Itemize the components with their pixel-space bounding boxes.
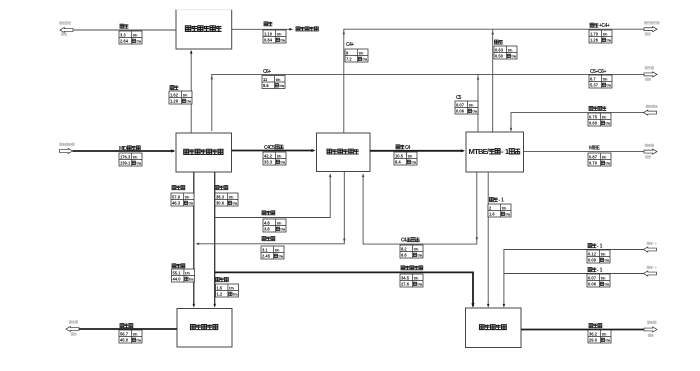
svg-text:t/h: t/h bbox=[414, 275, 419, 280]
stream table polymer grade ethylene bbox=[400, 274, 423, 287]
stream label hydrogen 氢气 bbox=[264, 22, 272, 26]
edge note butene1 note bbox=[647, 242, 657, 246]
arrow methanol feed in left bbox=[60, 148, 73, 153]
svg-text:t/h: t/h bbox=[601, 251, 606, 256]
svg-text:1.26: 1.26 bbox=[590, 37, 599, 42]
stream label C6+ stream bbox=[263, 69, 271, 75]
svg-text:t/h: t/h bbox=[469, 102, 474, 107]
svg-text:3.1: 3.1 bbox=[262, 247, 268, 252]
stream table PP product bbox=[119, 330, 142, 343]
svg-text:8.6: 8.6 bbox=[263, 83, 269, 88]
svg-text:t/h: t/h bbox=[133, 154, 138, 159]
arrow purge gas out left bbox=[60, 27, 73, 32]
svg-text:-1: -1 bbox=[597, 244, 603, 250]
svg-text:0.84: 0.84 bbox=[264, 37, 273, 42]
svg-text:t/a: t/a bbox=[605, 337, 610, 342]
stream label PP product bbox=[120, 324, 133, 328]
wire C5 from MTBE top to C5C6 header bbox=[477, 74, 480, 132]
edge note gasoline note top bbox=[645, 21, 660, 24]
wire fuel-gas out of H2 unit to left edge bbox=[74, 29, 177, 31]
svg-text:t/h: t/h bbox=[602, 114, 607, 119]
wire gasoline from MTBE top to top header bbox=[491, 29, 494, 132]
stream table MTO grade methanol feed bbox=[119, 153, 142, 166]
svg-text:1.2: 1.2 bbox=[217, 291, 223, 296]
unit box H2-purification 氢气提纯装置 (top edge faint) bbox=[176, 10, 232, 50]
wire PP product to left edge bbox=[79, 328, 177, 330]
stream label light C4 recycle bbox=[262, 211, 275, 215]
svg-text:0.70: 0.70 bbox=[589, 160, 598, 165]
svg-text:t/a: t/a bbox=[606, 82, 611, 87]
arrow gasoline+C4 out right bbox=[644, 27, 657, 32]
wire C6+ from MTO top to right edge header bbox=[211, 74, 644, 131]
stream table crude ethylene bbox=[215, 193, 238, 206]
svg-text:t/h: t/h bbox=[601, 275, 606, 280]
svg-text:C4: C4 bbox=[405, 145, 411, 151]
wire MTO to olefin-conversion main bbox=[232, 149, 316, 152]
svg-text:t/h: t/h bbox=[277, 220, 282, 225]
svg-text:t/h: t/h bbox=[359, 50, 364, 55]
edge note mtbe note top bbox=[645, 144, 654, 147]
arrow butene-1 in right bbox=[644, 247, 657, 252]
svg-text:1.62: 1.62 bbox=[170, 92, 179, 97]
svg-text:t/h: t/h bbox=[133, 331, 138, 336]
wire PE product to right edge bbox=[521, 329, 644, 331]
stream table hydrogen 氢气 bbox=[263, 30, 286, 43]
svg-text:t/h: t/h bbox=[603, 31, 608, 36]
edge note purge note bottom bbox=[62, 33, 68, 36]
stream label butene-1 product bbox=[490, 198, 505, 204]
wire ethylene MTO bottom to PP top bbox=[213, 172, 216, 308]
svg-text:0.75: 0.75 bbox=[589, 114, 598, 119]
svg-text:C4: C4 bbox=[401, 238, 407, 244]
svg-text:t/h: t/h bbox=[603, 76, 608, 81]
wire methanol feed main bbox=[73, 149, 176, 152]
svg-text:45.0: 45.0 bbox=[120, 337, 129, 342]
svg-text:10.5: 10.5 bbox=[395, 153, 404, 158]
stream label H2 to purification bbox=[170, 86, 178, 90]
svg-text:0.63: 0.63 bbox=[495, 47, 504, 52]
svg-text:+C4+: +C4+ bbox=[599, 23, 610, 29]
svg-text:t/a: t/a bbox=[233, 291, 238, 296]
stream label gasoline+C4+ out bbox=[590, 23, 610, 29]
arrow hexene-1 in right bbox=[644, 271, 657, 276]
stream label hexene-1 feed bbox=[588, 268, 603, 274]
stream label heavy C4 bbox=[262, 237, 275, 241]
svg-text:33.3: 33.3 bbox=[264, 159, 273, 164]
svg-text:34.5: 34.5 bbox=[401, 275, 410, 280]
wire C4 raffinate MTBE bottom to olefin-conversion bottom bbox=[362, 172, 478, 244]
stream label fuel gas 燃气 bbox=[120, 24, 128, 28]
stream label C5 stream bbox=[456, 95, 462, 101]
svg-text:1.5: 1.5 bbox=[217, 285, 223, 290]
svg-text:t/h: t/h bbox=[414, 246, 419, 251]
svg-text:t/a: t/a bbox=[606, 37, 611, 42]
wire hydrogen product to right with arrow bbox=[232, 28, 293, 31]
svg-text:8.2: 8.2 bbox=[401, 246, 407, 251]
arrow etherified C4 in right bbox=[644, 110, 657, 115]
unit box MTBE/butene-1 unit bbox=[466, 132, 524, 172]
stream table gasoline 汽油 bbox=[494, 46, 517, 59]
svg-text:t/h: t/h bbox=[276, 77, 281, 82]
svg-text:t/a: t/a bbox=[136, 160, 141, 165]
stream label butene-1 feed bbox=[588, 244, 603, 250]
svg-text:0.12: 0.12 bbox=[588, 251, 597, 256]
svg-text:t/a: t/a bbox=[280, 37, 285, 42]
stream table heavy C4 bbox=[261, 246, 284, 259]
unit box PE 聚乙烯装置 bbox=[466, 308, 522, 348]
svg-text:1.6: 1.6 bbox=[489, 211, 495, 216]
svg-text:176.3: 176.3 bbox=[120, 154, 131, 159]
stream table hexene-1 feed bbox=[587, 274, 610, 287]
arrow C5C6 out right bbox=[644, 72, 657, 77]
stream table propylene to PP bbox=[172, 269, 195, 282]
svg-text:t/a: t/a bbox=[136, 337, 141, 342]
svg-text:0.07: 0.07 bbox=[456, 102, 465, 107]
svg-text:t/a: t/a bbox=[604, 257, 609, 262]
svg-text:-1: -1 bbox=[597, 268, 603, 274]
stream label etherified C4 in bbox=[589, 106, 606, 110]
svg-text:6.7: 6.7 bbox=[590, 76, 596, 81]
wire olefin-conversion to MTBE main bbox=[370, 149, 465, 152]
stream label mixed C4 bbox=[396, 145, 411, 151]
svg-text:1.10: 1.10 bbox=[264, 31, 273, 36]
svg-text:t/a: t/a bbox=[411, 159, 416, 164]
stream label gasoline 汽油 bbox=[495, 40, 503, 44]
svg-text:0.07: 0.07 bbox=[588, 275, 597, 280]
wire butene-1 feed from right edge to PE bbox=[503, 250, 644, 308]
svg-text:t/h: t/h bbox=[602, 331, 607, 336]
edge note mtbe note bottom bbox=[646, 156, 652, 159]
stream table crude propylene bbox=[171, 193, 194, 206]
svg-text:t/h: t/h bbox=[185, 270, 190, 275]
wire butene-1 MTBE bottom to PE top bbox=[487, 172, 490, 308]
stream label C5+C6+ out bbox=[590, 69, 606, 75]
svg-text:t/h: t/h bbox=[602, 154, 607, 159]
svg-text:t/a: t/a bbox=[605, 120, 610, 125]
wire etherified-C4 feed from right edge into MTBE top bbox=[510, 113, 644, 132]
stream table C4 raffinate bbox=[400, 245, 423, 258]
svg-text:0.06: 0.06 bbox=[456, 108, 465, 113]
svg-text:t/h: t/h bbox=[275, 247, 280, 252]
svg-text:8.4: 8.4 bbox=[395, 159, 401, 164]
svg-text:6.6: 6.6 bbox=[401, 252, 407, 257]
svg-text:t/a: t/a bbox=[188, 200, 193, 205]
svg-text:7.2: 7.2 bbox=[346, 56, 352, 61]
svg-text:t/a: t/a bbox=[604, 281, 609, 286]
svg-text:C6+: C6+ bbox=[263, 69, 271, 75]
stream table fuel gas 燃气 bbox=[119, 31, 142, 44]
svg-text:t/h: t/h bbox=[133, 32, 138, 37]
stream table C4C5 olefins bbox=[263, 152, 286, 165]
svg-text:38.3: 38.3 bbox=[216, 194, 225, 199]
svg-text:t/a: t/a bbox=[511, 53, 516, 58]
svg-text:30.6: 30.6 bbox=[216, 200, 225, 205]
svg-text:t/a: t/a bbox=[186, 98, 191, 103]
stream label propylene to PP bbox=[172, 264, 185, 268]
svg-text:3.3: 3.3 bbox=[120, 32, 126, 37]
stream table light C4 recycle bbox=[263, 219, 286, 232]
edge note hexene1 note bbox=[647, 266, 657, 270]
stream table PE product bbox=[588, 330, 611, 343]
stream table butene-1 feed bbox=[587, 250, 610, 263]
svg-text:1.70: 1.70 bbox=[590, 31, 599, 36]
svg-text:36.2: 36.2 bbox=[589, 331, 598, 336]
stream label crude ethylene bbox=[215, 186, 228, 190]
svg-text:55.1: 55.1 bbox=[173, 270, 182, 275]
arrow MTBE out right bbox=[644, 149, 657, 154]
svg-text:t/h: t/h bbox=[277, 153, 282, 158]
edge note c4 feed note bbox=[646, 105, 658, 108]
wire ethylene recycle to olefin-conversion bottom bbox=[215, 174, 332, 218]
svg-text:5.37: 5.37 bbox=[590, 82, 599, 87]
edge note purge note top bbox=[60, 22, 72, 25]
svg-text:C4C5: C4C5 bbox=[264, 145, 275, 151]
svg-text:t/a: t/a bbox=[505, 211, 510, 216]
svg-text:-1: -1 bbox=[653, 266, 657, 270]
stream label PE product bbox=[589, 324, 602, 328]
stream table butene-1 product bbox=[488, 204, 511, 217]
svg-text:0.50: 0.50 bbox=[495, 53, 504, 58]
svg-text:t/a: t/a bbox=[417, 281, 422, 286]
stream label C4C5 olefins bbox=[264, 145, 284, 151]
svg-text:11: 11 bbox=[263, 77, 268, 82]
edge note methanol source note bbox=[60, 143, 75, 146]
svg-text:0.60: 0.60 bbox=[589, 120, 598, 125]
svg-text:t/a: t/a bbox=[280, 159, 285, 164]
svg-text:t/h: t/h bbox=[408, 153, 413, 158]
svg-text:57.9: 57.9 bbox=[172, 194, 181, 199]
svg-text:t/a: t/a bbox=[417, 252, 422, 257]
svg-text:t/a: t/a bbox=[232, 200, 237, 205]
svg-text:MTBE/: MTBE/ bbox=[469, 147, 490, 156]
stream label MTBE product bbox=[589, 146, 601, 152]
svg-text:2.64: 2.64 bbox=[120, 38, 129, 43]
svg-text:t/a: t/a bbox=[472, 108, 477, 113]
edge note gasoline note bottom bbox=[645, 33, 651, 36]
svg-text:t/h: t/h bbox=[229, 194, 234, 199]
wire heavies from olefin-conversion bottom to propylene line bbox=[196, 172, 346, 245]
svg-text:t/a: t/a bbox=[189, 276, 194, 281]
wire H2 offgas MTO top to H2 unit bottom bbox=[190, 50, 193, 133]
svg-text:t/a: t/a bbox=[278, 253, 283, 258]
stream table etherified C4 in bbox=[588, 113, 611, 126]
svg-text:46.3: 46.3 bbox=[172, 200, 181, 205]
wire MTBE product to right edge bbox=[524, 151, 644, 153]
stream table C4+ stream bbox=[345, 49, 368, 62]
svg-text:29.0: 29.0 bbox=[589, 337, 598, 342]
svg-text:0.87: 0.87 bbox=[589, 154, 598, 159]
svg-text:2.45: 2.45 bbox=[262, 253, 271, 258]
svg-text:139.1: 139.1 bbox=[120, 160, 131, 165]
stream table ethylene to PP bbox=[216, 284, 239, 297]
wire hexene-1 comonomer feed from right edge bbox=[504, 273, 644, 275]
stream table MTBE product bbox=[588, 153, 611, 166]
svg-text:3.8: 3.8 bbox=[264, 226, 270, 231]
stream table C6+ stream bbox=[262, 76, 285, 89]
svg-text:-1: -1 bbox=[501, 147, 510, 156]
svg-text:1.29: 1.29 bbox=[170, 98, 179, 103]
svg-text:-1: -1 bbox=[653, 242, 657, 246]
stream table gasoline+C4+ out bbox=[589, 30, 612, 43]
stream table C5+C6+ out bbox=[589, 75, 612, 88]
arrow PP product out left bbox=[66, 326, 79, 331]
wire propylene MTO bottom to PP top bbox=[193, 172, 196, 308]
svg-text:t/a: t/a bbox=[362, 56, 367, 61]
stream label crude propylene bbox=[172, 186, 185, 190]
edge note PP out note top bbox=[69, 321, 78, 324]
stream label polymer grade ethylene bbox=[401, 266, 423, 270]
svg-text:t/h: t/h bbox=[508, 47, 513, 52]
stream table mixed C4 bbox=[394, 152, 417, 165]
unit box MTO 甲醇制烯烃装置 bbox=[176, 133, 232, 172]
svg-text:t/h: t/h bbox=[185, 194, 190, 199]
stream label MTO grade methanol feed bbox=[119, 146, 140, 152]
edge note PE note top bbox=[648, 321, 657, 324]
stream label C4 raffinate bbox=[401, 238, 419, 244]
edge note PE note bottom bbox=[648, 334, 654, 337]
svg-text:MTO: MTO bbox=[119, 146, 127, 152]
edge note PP out note bottom bbox=[71, 333, 77, 336]
svg-text:MTBE: MTBE bbox=[589, 146, 601, 152]
svg-text:56.7: 56.7 bbox=[120, 331, 129, 336]
svg-text:C4+: C4+ bbox=[346, 42, 354, 48]
unit box olefin-conversion 烯烃转化装置 bbox=[317, 133, 371, 172]
svg-text:C5+C6+: C5+C6+ bbox=[590, 69, 606, 75]
edge note C5C6 note top bbox=[645, 66, 654, 69]
svg-text:t/h: t/h bbox=[502, 205, 507, 210]
svg-text:t/a: t/a bbox=[279, 83, 284, 88]
stream label ethylene to PP bbox=[216, 278, 229, 282]
arrow PE product out right bbox=[644, 327, 657, 332]
svg-text:27.6: 27.6 bbox=[401, 281, 410, 286]
svg-text:-1: -1 bbox=[498, 198, 504, 204]
svg-text:0.09: 0.09 bbox=[588, 257, 597, 262]
svg-text:t/a: t/a bbox=[280, 226, 285, 231]
svg-text:C5: C5 bbox=[456, 95, 462, 101]
unit box PP 聚丙烯装置 bbox=[177, 309, 232, 348]
svg-text:t/h: t/h bbox=[277, 31, 282, 36]
svg-text:t/h: t/h bbox=[229, 285, 234, 290]
stream table C5 stream bbox=[455, 101, 478, 114]
stream label C4+ stream bbox=[346, 42, 354, 48]
svg-text:t/a: t/a bbox=[136, 38, 141, 43]
svg-text:42.2: 42.2 bbox=[264, 153, 273, 158]
wire C4+ from olefin-conversion top to top header bbox=[343, 29, 644, 133]
svg-text:t/h: t/h bbox=[183, 92, 188, 97]
label destination 去加氢装置 bbox=[296, 27, 318, 31]
svg-text:t/a: t/a bbox=[605, 160, 610, 165]
svg-text:44.0: 44.0 bbox=[173, 276, 182, 281]
stream table H2 to purification bbox=[169, 91, 192, 104]
wire ethylene feed to PE main bbox=[215, 272, 475, 307]
edge note C5C6 note bottom bbox=[646, 78, 652, 81]
svg-text:0.06: 0.06 bbox=[588, 281, 597, 286]
svg-text:4.8: 4.8 bbox=[264, 220, 270, 225]
